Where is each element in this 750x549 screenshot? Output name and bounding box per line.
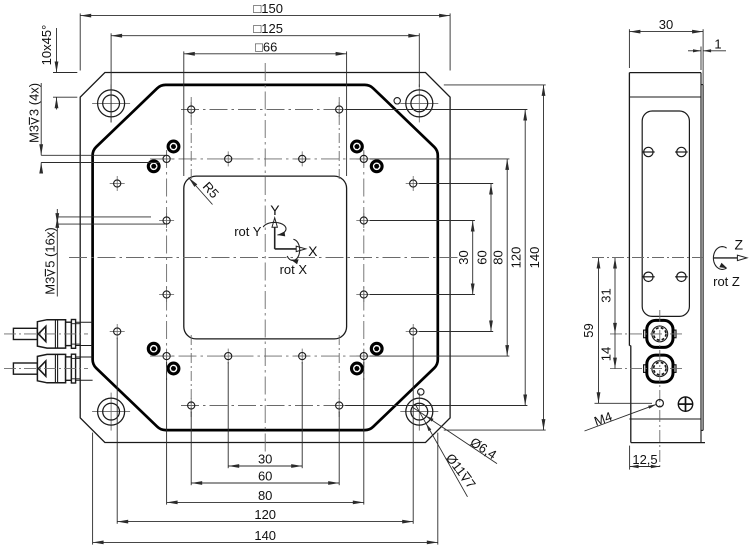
svg-text:30: 30: [456, 250, 471, 264]
svg-text:120: 120: [509, 247, 524, 269]
svg-text:5 (16x): 5 (16x): [43, 227, 58, 267]
svg-text:Y: Y: [270, 202, 280, 218]
svg-text:60: 60: [258, 469, 272, 484]
svg-text:140: 140: [527, 247, 542, 269]
svg-text:M3: M3: [43, 277, 58, 295]
svg-text:rot X: rot X: [280, 262, 308, 277]
svg-text:59: 59: [581, 323, 596, 337]
svg-text:M3: M3: [27, 125, 42, 143]
svg-text:30: 30: [258, 452, 272, 467]
svg-text:10x45°: 10x45°: [39, 25, 54, 66]
svg-text:□66: □66: [255, 39, 277, 54]
svg-text:3 (4x): 3 (4x): [27, 83, 42, 116]
svg-text:140: 140: [254, 528, 276, 543]
svg-text:14: 14: [599, 347, 614, 361]
svg-text:60: 60: [475, 250, 490, 264]
svg-text:X: X: [308, 243, 318, 259]
svg-text:rot Z: rot Z: [713, 274, 740, 289]
svg-text:12,5: 12,5: [632, 452, 657, 467]
svg-text:31: 31: [599, 288, 614, 302]
svg-text:Z: Z: [735, 237, 744, 253]
svg-text:rot Y: rot Y: [234, 224, 262, 239]
svg-text:120: 120: [254, 507, 276, 522]
svg-text:□125: □125: [253, 21, 283, 36]
svg-text:80: 80: [491, 250, 506, 264]
svg-text:1: 1: [714, 36, 721, 51]
svg-text:80: 80: [258, 488, 272, 503]
svg-text:□150: □150: [253, 1, 283, 16]
svg-text:30: 30: [659, 17, 673, 32]
